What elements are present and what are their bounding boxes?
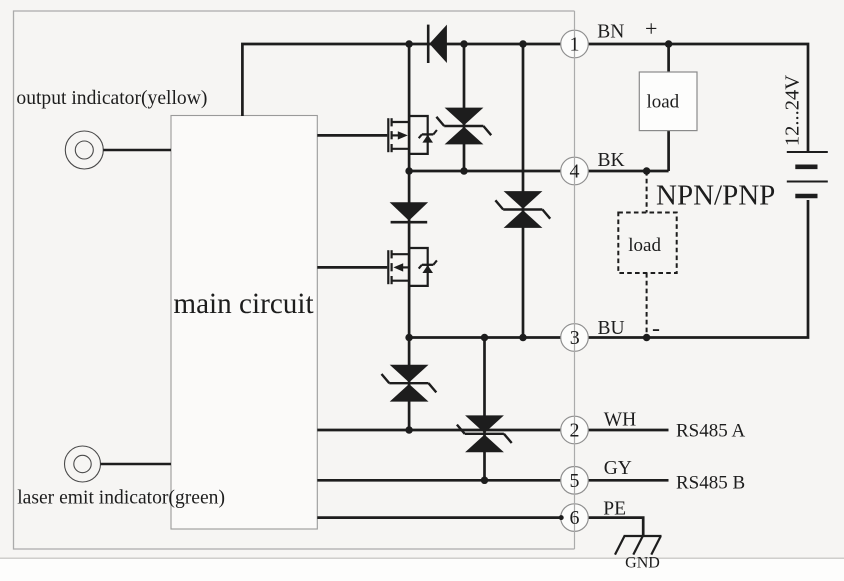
svg-text:4: 4 — [570, 161, 580, 183]
ground symbol — [615, 536, 662, 555]
body zener loop Q1 — [409, 116, 428, 154]
node top-B — [460, 40, 468, 48]
svg-text:laser emit indicator(green): laser emit indicator(green) — [17, 488, 225, 509]
svg-text:NPN/PNP: NPN/PNP — [656, 180, 775, 212]
wire GY left — [317, 479, 560, 482]
svg-text:BK: BK — [598, 150, 625, 171]
svg-text:-: - — [652, 316, 660, 342]
TVS diode Z2 — [495, 191, 550, 228]
node WH — [405, 426, 413, 434]
transistor Q1 (P-MOSFET) — [388, 118, 409, 152]
svg-text:2: 2 — [570, 420, 580, 442]
wire dashed load bottom — [646, 273, 648, 338]
node GY — [481, 477, 489, 485]
svg-text:BN: BN — [597, 21, 624, 42]
terminal 1 circle — [561, 30, 589, 58]
zener diode DZ1 — [419, 130, 437, 143]
wire gate Q2 — [317, 266, 387, 269]
node top-A — [405, 40, 413, 48]
node PE stub — [559, 515, 564, 520]
wire terminal 1 to battery + — [588, 44, 808, 151]
svg-text:PE: PE — [603, 499, 626, 520]
svg-text:BU: BU — [598, 318, 625, 339]
bottom white strip — [0, 559, 844, 581]
wire terminal 4 to load bottom — [588, 170, 668, 173]
svg-text:RS485 A: RS485 A — [676, 421, 745, 442]
terminal 3 circle — [561, 324, 589, 352]
wire terminal 2 to RS485 A — [588, 429, 668, 432]
svg-text:1: 1 — [570, 34, 580, 56]
node BK-B — [460, 167, 468, 175]
node BK load — [643, 167, 651, 175]
svg-text:RS485 B: RS485 B — [676, 473, 745, 494]
node top-C — [519, 40, 527, 48]
terminal 2 circle — [561, 416, 589, 444]
terminal circles 1,4,3,2,5,6 — [561, 30, 589, 531]
wire BU rail left — [409, 336, 561, 339]
wire terminal 6 to earth — [588, 518, 643, 536]
svg-text:GY: GY — [604, 458, 632, 479]
svg-text:3: 3 — [570, 327, 580, 349]
wire dashed load top — [646, 171, 648, 213]
svg-text:WH: WH — [604, 409, 637, 430]
wire terminal 3 to battery - — [588, 200, 808, 338]
wire output indicator to main circuit — [103, 149, 171, 151]
TVS diode Z1 — [436, 108, 491, 145]
node BU-C — [519, 334, 527, 342]
wire laser indicator to main circuit — [101, 463, 172, 465]
wire BK rail left — [409, 170, 561, 173]
zener diode DZ2 — [419, 260, 437, 273]
diode D2 — [390, 202, 429, 222]
TVS diode Z4 — [457, 415, 512, 452]
wire load top — [667, 44, 670, 72]
body zener loop Q2 — [409, 248, 428, 286]
svg-text:load: load — [628, 235, 661, 256]
svg-text:5: 5 — [570, 470, 580, 492]
load box (dashed) — [618, 213, 676, 274]
svg-text:GND: GND — [625, 555, 660, 572]
node BU load — [643, 334, 651, 342]
wire terminal 5 to RS485 B — [588, 479, 668, 482]
laser emit indicator LED symbol — [65, 446, 101, 482]
wire gate Q1 — [317, 134, 387, 137]
junction dots top rail — [405, 40, 672, 484]
output indicator LED symbol — [65, 131, 103, 169]
transistor Q2 (N-MOSFET) — [388, 250, 409, 284]
wire TVS Z1 vertical — [463, 44, 466, 171]
enclosure edge through terminals — [574, 11, 576, 549]
TVS diode Z3 — [382, 365, 437, 402]
svg-text:output indicator(yellow): output indicator(yellow) — [16, 88, 207, 109]
node BK-A — [405, 167, 413, 175]
wire load bottom — [667, 131, 670, 171]
terminal 5 circle — [561, 467, 589, 495]
wire main circuit top to terminal 1 (BN) — [242, 44, 560, 116]
wire PE left — [317, 516, 560, 519]
svg-text:main circuit: main circuit — [173, 288, 313, 320]
svg-text:+: + — [645, 16, 657, 41]
node BU-A — [405, 334, 413, 342]
diode D1 — [428, 25, 447, 63]
node load top — [665, 40, 673, 48]
page separator line — [0, 557, 844, 559]
terminal 6 circle — [561, 504, 589, 532]
battery BT1 — [787, 152, 828, 196]
svg-text:load: load — [646, 91, 679, 112]
wire TVS Z2 vertical — [522, 44, 525, 338]
svg-text:12...24V: 12...24V — [782, 75, 804, 146]
node BU-B — [481, 334, 489, 342]
load box (solid) — [639, 72, 697, 131]
wire TVS Z4 vertical — [483, 338, 486, 481]
sensor enclosure outline — [14, 11, 575, 549]
wire WH left — [317, 429, 560, 432]
svg-text:6: 6 — [570, 507, 580, 529]
terminal 4 circle — [561, 157, 589, 185]
main circuit box U1 — [171, 116, 317, 530]
wire node A vertical rail x=409 — [408, 44, 411, 430]
